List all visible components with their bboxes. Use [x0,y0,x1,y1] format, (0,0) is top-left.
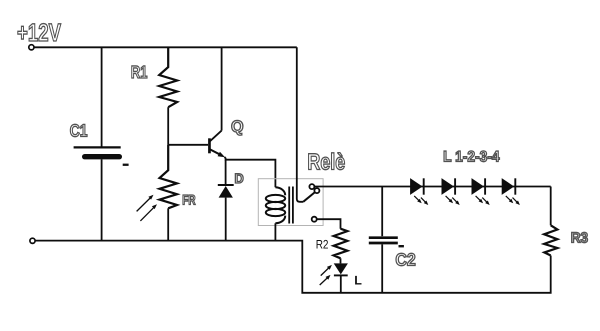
wire R3 top [550,187,552,226]
svg-text:L 1-2-3-4: L 1-2-3-4 [443,149,500,166]
label minus C2 [399,245,404,247]
LED L4 [502,178,516,195]
wire top rail [34,46,297,48]
svg-text:C1: C1 [70,121,88,141]
node GND terminal [30,238,35,243]
wire Q collector [221,47,223,130]
FR light arrow 1 [137,195,154,212]
svg-text:R3: R3 [571,230,588,246]
resistor R2 [334,229,348,259]
wire C1 branch bottom [101,159,103,240]
wire R1 to base junction [167,107,169,145]
wire relay pole from top rail [297,47,303,202]
LED L1 [410,178,424,195]
photoresistor FR [160,145,178,209]
relay contact arm end [314,188,319,193]
wire C2 branch top [381,187,383,237]
LED L4 arrows [506,196,520,205]
svg-text:L: L [354,274,362,288]
resistor R3 [544,225,557,255]
LED L arrow 1 [321,265,332,276]
svg-text:Q: Q [231,118,244,136]
wire C2 branch bottom [381,244,383,292]
wire coil bottom [274,223,276,240]
wire bottom rail [35,241,551,293]
LED L arrow 2 [320,275,331,285]
wire FR bottom [167,208,169,240]
wire R2 to LED L [340,258,342,263]
label minus C1 [123,164,129,166]
svg-text:R1: R1 [131,62,148,82]
LED L3 [472,178,486,195]
svg-text:D: D [235,171,244,186]
diode D [218,185,234,198]
relay core [289,187,293,224]
svg-text:Relè: Relè [307,149,345,175]
relay switch arm [303,192,315,202]
relay box [258,179,323,226]
wire Q emitter to coil [225,157,276,187]
FR light arrow 2 [140,204,157,221]
LED L2 [442,178,456,195]
transistor Q1 [208,131,225,158]
capacitor C1 [74,147,122,159]
LED L [334,263,348,275]
relay contact NC [312,217,317,222]
LED L1 arrows [414,196,428,205]
wire D branch top [225,160,227,184]
LED L3 arrows [476,196,490,205]
svg-text:FR: FR [182,192,195,207]
wire lower contact to R2 [317,219,341,229]
relay coil K1 [266,187,285,223]
LED L2 arrows [446,196,460,205]
node +12V terminal [29,45,34,50]
relay contact NO [309,184,314,189]
resistor R1 [159,47,177,107]
wire NO contact to LED rail [314,186,550,188]
wire C1 branch top [101,47,103,147]
svg-text:+12V: +12V [17,19,61,47]
wire LED L bottom [340,275,342,292]
svg-text:R2: R2 [316,238,329,252]
capacitor C2 [369,238,398,243]
wire base [168,144,208,146]
svg-text:C2: C2 [395,249,415,269]
wire D branch bottom [225,198,227,241]
